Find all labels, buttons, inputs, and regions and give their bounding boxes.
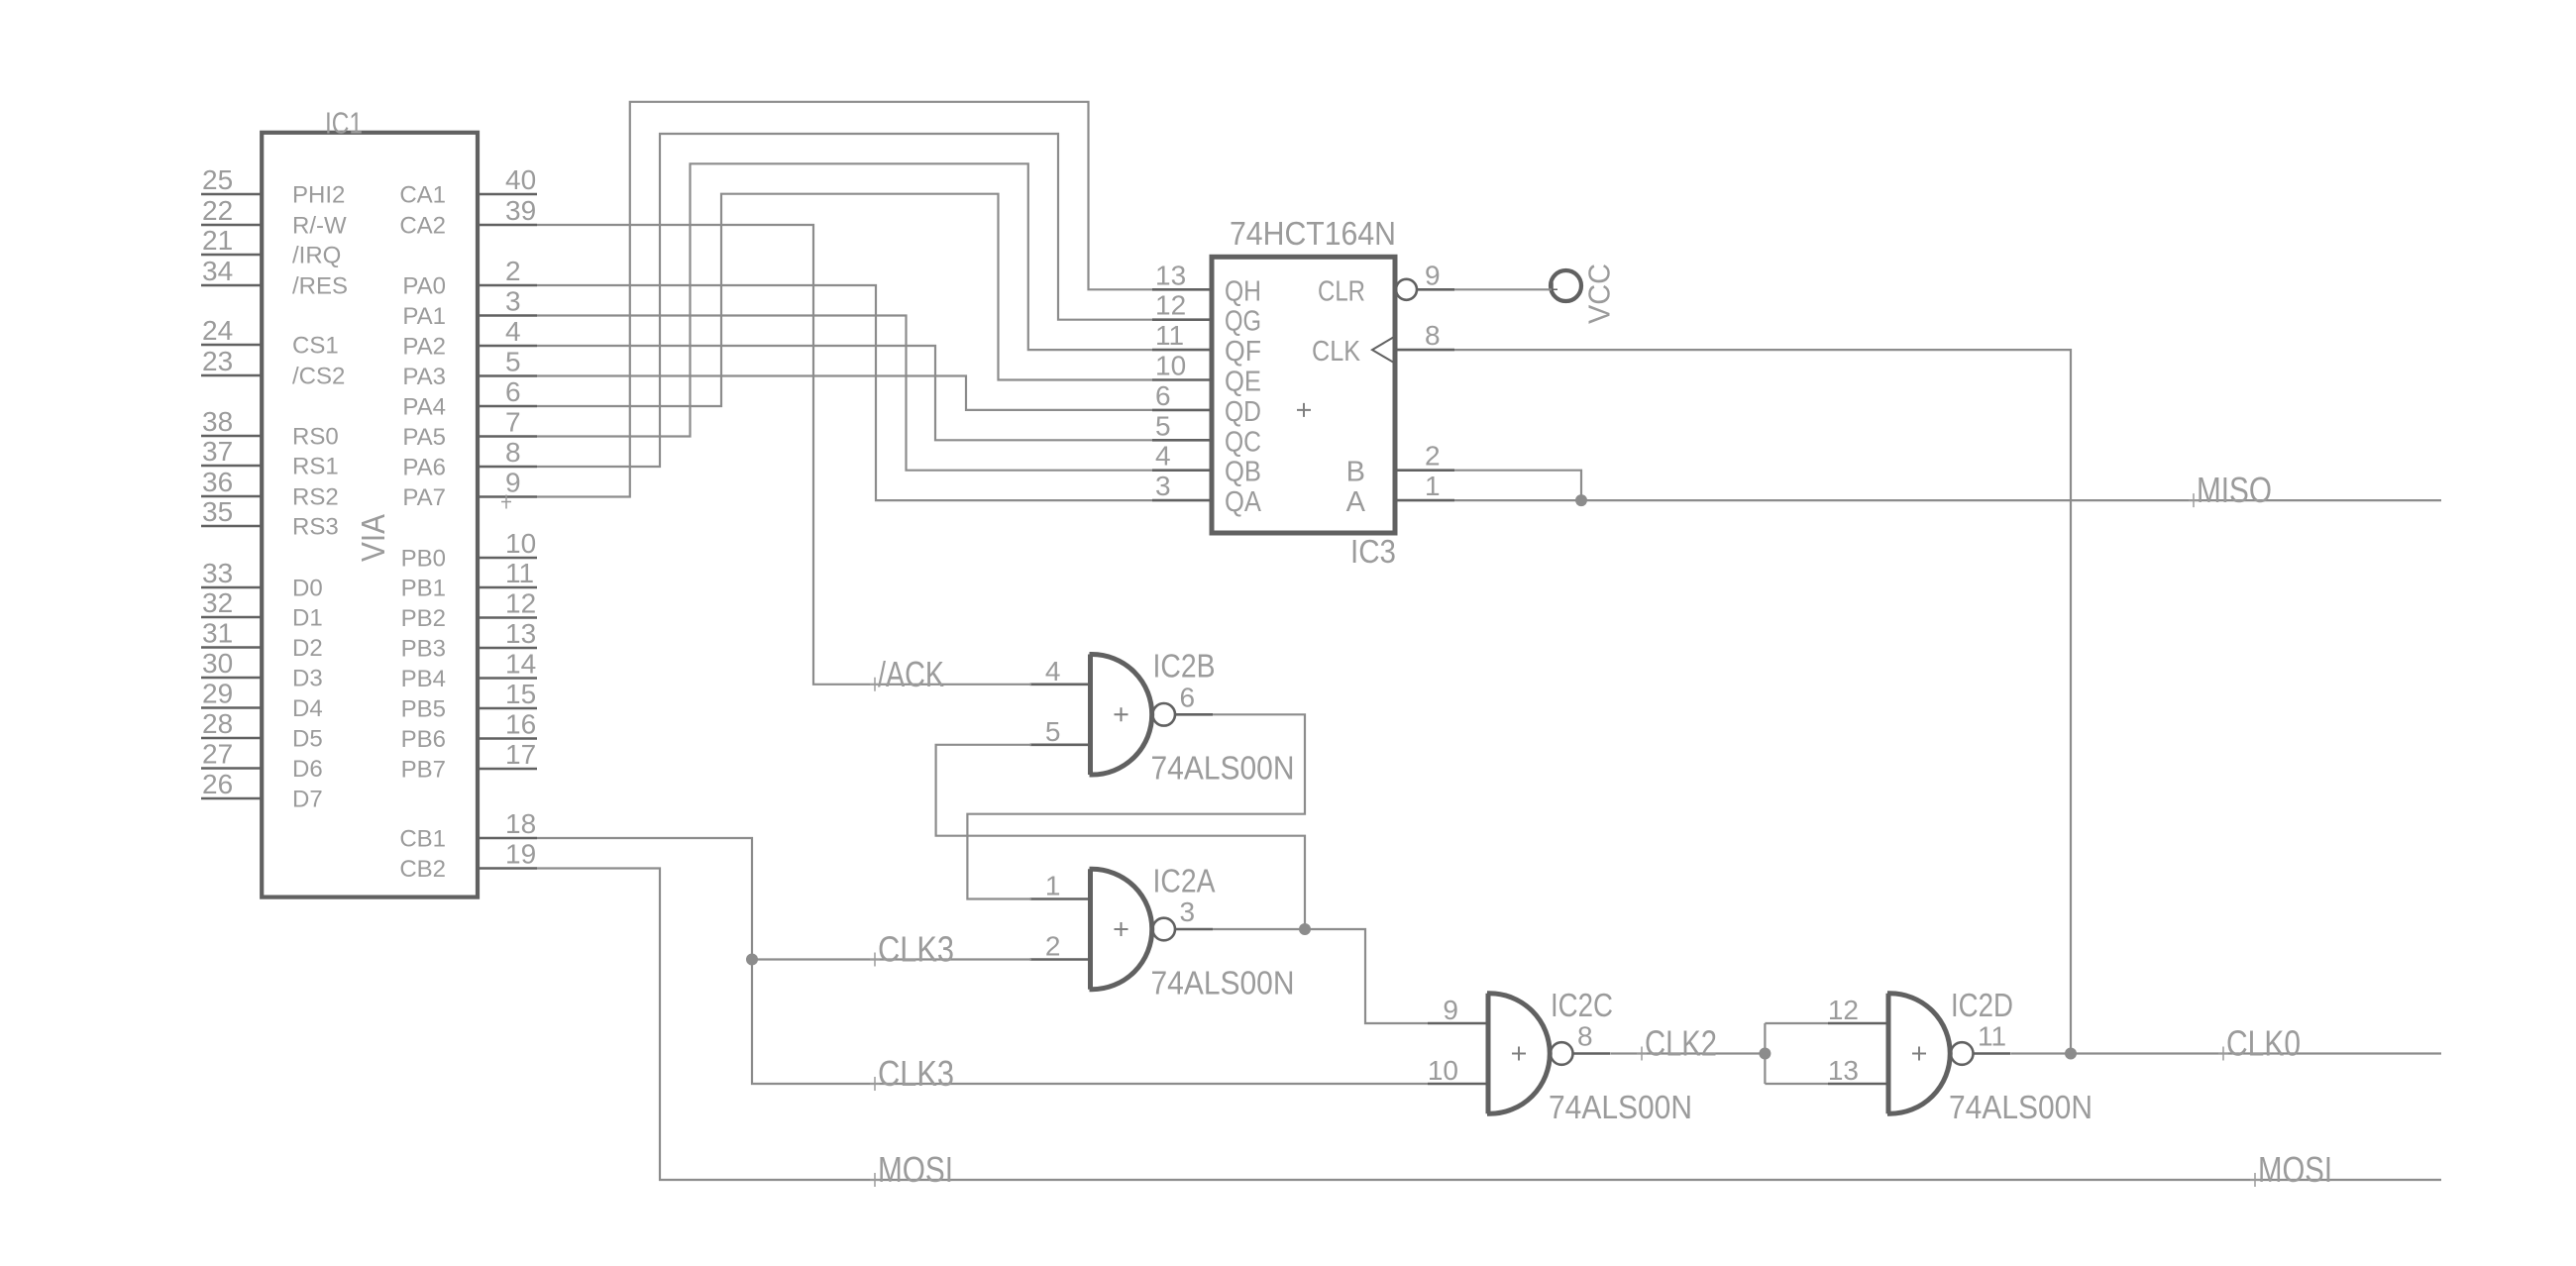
svg-text:QC: QC bbox=[1225, 426, 1261, 458]
IC1 pin 9 (PA7) bbox=[402, 468, 537, 512]
svg-text:CLK2: CLK2 bbox=[1645, 1023, 1717, 1064]
svg-text:22: 22 bbox=[202, 195, 233, 226]
IC2D input pin 13 stub bbox=[1828, 1055, 1888, 1086]
svg-text:QG: QG bbox=[1225, 306, 1261, 338]
junction on net S at IC2A output bbox=[1299, 923, 1311, 935]
wire net MOSI (IC1 CB2 pin 19 along bottom off right) bbox=[537, 869, 2441, 1181]
svg-text:/CS2: /CS2 bbox=[292, 364, 345, 390]
wire net CLK2 (IC2C output 8 to IC2D inputs 12 and 13) bbox=[1611, 1023, 1828, 1084]
IC1 pin 21 (/IRQ) bbox=[201, 225, 341, 269]
IC1 reference designator label bbox=[325, 106, 363, 141]
svg-text:MISO: MISO bbox=[2197, 470, 2272, 510]
IC1 VIA 6522 body bbox=[262, 133, 478, 897]
svg-text:IC2D: IC2D bbox=[1951, 987, 2013, 1023]
IC2A output pin 3 stub bbox=[1175, 897, 1213, 929]
svg-text:2: 2 bbox=[1425, 441, 1441, 472]
IC2D reference designator label bbox=[1951, 987, 2013, 1023]
IC2A value label 74ALS00N bbox=[1151, 964, 1295, 1001]
svg-text:RS3: RS3 bbox=[292, 514, 339, 541]
IC2A input pin 2 stub bbox=[1030, 931, 1091, 962]
svg-text:5: 5 bbox=[1045, 716, 1061, 747]
wire net VCC (IC3 CLR pin 9 to VCC symbol) bbox=[1454, 288, 1552, 290]
svg-text:6: 6 bbox=[1155, 380, 1171, 411]
IC1 pin 5 (PA3) bbox=[402, 347, 537, 391]
IC2D input pin 12 stub bbox=[1828, 995, 1888, 1025]
svg-text:PA5: PA5 bbox=[402, 424, 446, 451]
junction on CLK2 branch bbox=[1759, 1048, 1771, 1060]
svg-text:PB7: PB7 bbox=[401, 757, 446, 784]
svg-text:D2: D2 bbox=[292, 635, 323, 662]
svg-text:1: 1 bbox=[1045, 871, 1061, 901]
svg-text:15: 15 bbox=[505, 679, 536, 709]
svg-text:D0: D0 bbox=[292, 576, 323, 602]
svg-text:4: 4 bbox=[1045, 656, 1061, 686]
svg-text:32: 32 bbox=[202, 587, 233, 618]
svg-text:18: 18 bbox=[505, 808, 536, 839]
IC1 pin 22 (R/-W) bbox=[201, 195, 347, 240]
svg-text:QD: QD bbox=[1225, 396, 1261, 428]
IC1 value label VIA (vertical) bbox=[355, 514, 391, 562]
svg-text:8: 8 bbox=[1425, 320, 1441, 351]
svg-text:30: 30 bbox=[202, 648, 233, 679]
svg-text:9: 9 bbox=[1443, 995, 1458, 1025]
svg-text:PB5: PB5 bbox=[401, 696, 446, 723]
svg-text:25: 25 bbox=[202, 164, 233, 195]
svg-text:10: 10 bbox=[1428, 1055, 1458, 1086]
svg-text:10: 10 bbox=[505, 528, 536, 559]
IC1 pin 39 (CA2) bbox=[399, 195, 537, 240]
IC2B input pin 5 stub bbox=[1030, 716, 1091, 747]
IC2C reference designator label bbox=[1551, 987, 1613, 1023]
svg-text:9: 9 bbox=[1425, 260, 1441, 290]
IC1 pin 23 (/CS2) bbox=[201, 346, 345, 390]
svg-text:74HCT164N: 74HCT164N bbox=[1230, 215, 1396, 252]
junction on CLK0 at IC2D output bbox=[2065, 1048, 2077, 1060]
svg-text:21: 21 bbox=[202, 225, 233, 256]
wire net PA6 (IC1 pin 8 over the top to IC3 QG pin 12) bbox=[537, 134, 1152, 467]
svg-text:34: 34 bbox=[202, 256, 233, 286]
IC3 pin 6 (QD) bbox=[1152, 380, 1261, 428]
svg-text:MOSI: MOSI bbox=[2258, 1149, 2332, 1190]
IC1 pin 25 (PHI2) bbox=[201, 164, 345, 209]
svg-text:CLK3: CLK3 bbox=[878, 1053, 954, 1094]
svg-text:38: 38 bbox=[202, 406, 233, 437]
svg-text:QF: QF bbox=[1225, 336, 1261, 368]
svg-text:37: 37 bbox=[202, 436, 233, 467]
svg-text:74ALS00N: 74ALS00N bbox=[1151, 964, 1295, 1001]
IC1 pin 27 (D6) bbox=[201, 739, 323, 784]
svg-text:RS2: RS2 bbox=[292, 484, 339, 511]
svg-text:13: 13 bbox=[1828, 1055, 1859, 1086]
wire net PA5 (IC1 pin 7 over the top to IC3 QF pin 11) bbox=[537, 163, 1152, 436]
svg-text:36: 36 bbox=[202, 467, 233, 497]
svg-text:40: 40 bbox=[505, 164, 536, 195]
IC1 pin 15 (PB5) bbox=[401, 679, 537, 723]
IC3 value label 74HCT164N bbox=[1230, 215, 1396, 252]
svg-text:2: 2 bbox=[505, 256, 521, 286]
svg-text:6: 6 bbox=[505, 376, 521, 407]
NAND gate IC2D (74ALS00N) bbox=[1887, 994, 1973, 1114]
IC2B reference designator label bbox=[1153, 648, 1216, 685]
svg-text:3: 3 bbox=[1180, 897, 1196, 927]
svg-text:11: 11 bbox=[1978, 1021, 2006, 1052]
IC1 pin 4 (PA2) bbox=[402, 316, 537, 361]
svg-text:PB3: PB3 bbox=[401, 636, 446, 663]
IC1 pin 35 (RS3) bbox=[201, 496, 339, 541]
svg-text:QH: QH bbox=[1225, 275, 1261, 307]
IC3 pin 12 (QG) bbox=[1152, 290, 1261, 338]
svg-text:27: 27 bbox=[202, 739, 233, 770]
IC2D output pin 11 stub bbox=[1974, 1021, 2011, 1054]
svg-text:A: A bbox=[1346, 486, 1366, 518]
svg-text:39: 39 bbox=[505, 195, 536, 226]
IC1 pin 33 (D0) bbox=[201, 558, 323, 602]
IC1 pin 36 (RS2) bbox=[201, 467, 339, 511]
svg-text:13: 13 bbox=[505, 618, 536, 649]
svg-text:PA6: PA6 bbox=[402, 455, 446, 481]
svg-text:74ALS00N: 74ALS00N bbox=[1151, 750, 1295, 787]
svg-text:PA1: PA1 bbox=[402, 303, 446, 330]
IC1 pin 16 (PB6) bbox=[401, 709, 537, 754]
IC1 pin 13 (PB3) bbox=[401, 618, 537, 663]
svg-text:B: B bbox=[1346, 457, 1365, 488]
wire net PA4 (IC1 pin 6 over the top to IC3 QE pin 10) bbox=[537, 194, 1152, 406]
svg-text:24: 24 bbox=[202, 315, 233, 346]
svg-text:PA3: PA3 bbox=[402, 364, 446, 390]
svg-text:35: 35 bbox=[202, 496, 233, 527]
svg-text:CLK: CLK bbox=[1312, 336, 1361, 368]
wire net PA7 (IC1 pin 9 over the top to IC3 QH pin 13) bbox=[537, 102, 1152, 497]
IC3 pin 9 (CLR) with inversion bubble bbox=[1318, 260, 1454, 307]
svg-text:14: 14 bbox=[505, 649, 536, 680]
IC3 pin 2 (B) bbox=[1346, 441, 1454, 488]
svg-text:1: 1 bbox=[1425, 471, 1441, 501]
net label CLK2 bbox=[1637, 1023, 1717, 1064]
svg-text:MOSI: MOSI bbox=[878, 1149, 953, 1190]
svg-text:16: 16 bbox=[505, 709, 536, 740]
wire net /ACK (IC1 CA2 pin 39 to IC2B pin 4) bbox=[537, 225, 1031, 685]
svg-text:CB2: CB2 bbox=[399, 856, 446, 883]
IC2A input pin 1 stub bbox=[1030, 871, 1091, 901]
svg-text:PB4: PB4 bbox=[401, 666, 446, 692]
IC1 pin 29 (D4) bbox=[201, 679, 323, 723]
IC2D value label 74ALS00N bbox=[1949, 1089, 2093, 1125]
svg-text:8: 8 bbox=[505, 437, 521, 468]
IC1 pin 12 (PB2) bbox=[401, 588, 537, 633]
svg-text:CLR: CLR bbox=[1318, 275, 1365, 307]
svg-text:PA7: PA7 bbox=[402, 484, 446, 511]
svg-text:PB1: PB1 bbox=[401, 576, 446, 602]
svg-text:19: 19 bbox=[505, 839, 536, 870]
svg-text:5: 5 bbox=[1155, 410, 1171, 441]
IC1 pin 30 (D3) bbox=[201, 648, 323, 692]
net label MOSI (right) bbox=[2250, 1149, 2332, 1190]
IC1 pin 26 (D7) bbox=[201, 769, 323, 813]
NAND gate IC2A (74ALS00N) bbox=[1090, 869, 1175, 990]
svg-text:2: 2 bbox=[1045, 931, 1061, 962]
svg-text:QE: QE bbox=[1225, 367, 1261, 398]
svg-text:D4: D4 bbox=[292, 695, 323, 722]
svg-text:12: 12 bbox=[1155, 290, 1186, 321]
IC2B input pin 4 stub bbox=[1030, 656, 1091, 686]
IC1 pin 37 (RS1) bbox=[201, 436, 339, 480]
IC3 pin 11 (QF) bbox=[1152, 320, 1261, 368]
IC3 internal plus mark bbox=[1297, 403, 1311, 417]
IC2C output pin 8 stub bbox=[1573, 1021, 1611, 1054]
svg-text:IC2A: IC2A bbox=[1153, 862, 1216, 898]
svg-text:IC3: IC3 bbox=[1350, 533, 1396, 570]
svg-text:IC2B: IC2B bbox=[1153, 648, 1216, 685]
svg-text:11: 11 bbox=[1155, 320, 1184, 351]
svg-text:26: 26 bbox=[202, 769, 233, 799]
svg-text:9: 9 bbox=[505, 468, 521, 498]
IC1 pin 40 (CA1) bbox=[399, 164, 537, 209]
svg-text:CA1: CA1 bbox=[399, 182, 446, 209]
svg-text:CLK0: CLK0 bbox=[2226, 1023, 2301, 1064]
net label /ACK bbox=[870, 654, 944, 694]
wire net S (IC2A output 3 to IC2B input 5 and IC2C input 9) bbox=[936, 745, 1428, 1023]
svg-text:4: 4 bbox=[505, 316, 521, 347]
svg-text:VIA: VIA bbox=[355, 514, 391, 562]
svg-text:RS1: RS1 bbox=[292, 454, 339, 480]
IC3 74HCT164N body bbox=[1212, 257, 1395, 533]
IC1 pin 32 (D1) bbox=[201, 587, 323, 632]
wire net PA0 (IC1 pin 2 to IC3 QA pin 3) bbox=[537, 285, 1152, 500]
IC2A reference designator label bbox=[1153, 862, 1216, 898]
svg-text:4: 4 bbox=[1155, 441, 1171, 472]
net origin cross on PA7 wire bbox=[501, 495, 511, 509]
IC1 pin 28 (D5) bbox=[201, 708, 323, 753]
svg-text:CS1: CS1 bbox=[292, 333, 339, 360]
svg-text:8: 8 bbox=[1577, 1021, 1593, 1052]
IC1 pin 2 (PA0) bbox=[402, 256, 537, 300]
IC1 pin 31 (D2) bbox=[201, 618, 323, 663]
IC1 pin 17 (PB7) bbox=[401, 739, 537, 784]
IC1 pin 7 (PA5) bbox=[402, 407, 537, 452]
svg-text:CLK3: CLK3 bbox=[878, 929, 954, 970]
junction on MISO at B jog bbox=[1575, 494, 1587, 506]
net label CLK3 (upper) bbox=[870, 929, 954, 970]
svg-text:17: 17 bbox=[505, 739, 536, 770]
svg-text:D7: D7 bbox=[292, 787, 323, 813]
svg-text:D6: D6 bbox=[292, 756, 323, 783]
IC1 pin 6 (PA4) bbox=[402, 376, 537, 421]
svg-text:29: 29 bbox=[202, 679, 233, 709]
svg-text:/IRQ: /IRQ bbox=[292, 243, 341, 269]
IC3 reference designator label bbox=[1350, 533, 1396, 570]
IC3 pin 4 (QB) bbox=[1152, 441, 1261, 488]
svg-text:33: 33 bbox=[202, 558, 233, 588]
svg-text:13: 13 bbox=[1155, 260, 1186, 290]
wire net PA3 (IC1 pin 5 to IC3 QD pin 6) bbox=[537, 376, 1152, 410]
svg-text:CA2: CA2 bbox=[399, 213, 446, 240]
wire net PA1 (IC1 pin 3 to IC3 QB pin 4) bbox=[537, 316, 1152, 471]
IC3 pin 5 (QC) bbox=[1152, 410, 1261, 458]
svg-text:28: 28 bbox=[202, 708, 233, 739]
wire IC3 B pin 2 jog down to MISO bbox=[1454, 471, 1581, 500]
svg-text:11: 11 bbox=[505, 558, 534, 588]
svg-text:D3: D3 bbox=[292, 666, 323, 692]
IC1 pin 10 (PB0) bbox=[401, 528, 537, 573]
IC3 pin 8 (CLK) with edge-trigger chevron bbox=[1312, 320, 1454, 368]
svg-text:PB0: PB0 bbox=[401, 546, 446, 573]
IC3 pin 10 (QE) bbox=[1152, 351, 1261, 398]
IC1 pin 24 (CS1) bbox=[201, 315, 339, 360]
svg-text:PHI2: PHI2 bbox=[292, 182, 345, 209]
svg-text:PA4: PA4 bbox=[402, 394, 446, 421]
svg-text:QA: QA bbox=[1225, 486, 1262, 518]
VCC power symbol bbox=[1548, 264, 1617, 324]
wire net CLK3 (IC1 CB1 pin 18 to IC2A pin 2 and IC2C pin 10) bbox=[537, 838, 1428, 1084]
IC3 pin 1 (A) bbox=[1346, 471, 1454, 518]
svg-text:6: 6 bbox=[1180, 682, 1196, 712]
junction on CLK3 branch bbox=[746, 954, 758, 966]
svg-text:PA2: PA2 bbox=[402, 334, 446, 361]
svg-text:IC1: IC1 bbox=[325, 106, 363, 141]
IC1 pin 19 (CB2) bbox=[399, 839, 537, 884]
net label MISO bbox=[2189, 470, 2272, 510]
svg-text:CB1: CB1 bbox=[399, 826, 446, 853]
svg-text:QB: QB bbox=[1225, 457, 1261, 488]
wire net R (IC2B output 6 to IC2A input 1) bbox=[967, 714, 1305, 898]
svg-text:74ALS00N: 74ALS00N bbox=[1549, 1089, 1692, 1125]
IC1 pin 3 (PA1) bbox=[402, 286, 537, 331]
svg-text:10: 10 bbox=[1155, 351, 1186, 381]
wire net MISO (IC3 A pin 1 off right) bbox=[1454, 499, 2441, 501]
svg-text:5: 5 bbox=[505, 347, 521, 377]
net label CLK0 bbox=[2218, 1023, 2301, 1064]
net label CLK3 (lower) bbox=[870, 1053, 954, 1094]
svg-text:PB6: PB6 bbox=[401, 726, 446, 753]
IC1 pin 38 (RS0) bbox=[201, 406, 339, 451]
IC2C value label 74ALS00N bbox=[1549, 1089, 1692, 1125]
svg-text:PB2: PB2 bbox=[401, 605, 446, 632]
svg-text:RS0: RS0 bbox=[292, 424, 339, 451]
IC2C input pin 10 stub bbox=[1428, 1055, 1488, 1086]
svg-text:PA0: PA0 bbox=[402, 273, 446, 300]
svg-text:74ALS00N: 74ALS00N bbox=[1949, 1089, 2093, 1125]
svg-text:12: 12 bbox=[505, 588, 536, 619]
svg-text:12: 12 bbox=[1828, 995, 1859, 1025]
IC2B value label 74ALS00N bbox=[1151, 750, 1295, 787]
net label MOSI (left) bbox=[870, 1149, 953, 1190]
svg-text:7: 7 bbox=[505, 407, 521, 438]
NAND gate IC2C (74ALS00N) bbox=[1487, 994, 1572, 1114]
IC1 pin 34 (/RES) bbox=[201, 256, 348, 300]
svg-text:R/-W: R/-W bbox=[292, 213, 347, 240]
IC1 pin 18 (CB1) bbox=[399, 808, 537, 853]
svg-text:3: 3 bbox=[1155, 471, 1171, 501]
IC2C input pin 9 stub bbox=[1428, 995, 1488, 1025]
IC1 pin 14 (PB4) bbox=[401, 649, 537, 693]
svg-text:31: 31 bbox=[202, 618, 233, 649]
wire net PA2 (IC1 pin 4 to IC3 QC pin 5) bbox=[537, 346, 1152, 440]
wire net CLK0 (IC3 CLK pin 8 down to IC2D output and off right) bbox=[1454, 350, 2441, 1053]
svg-text:D5: D5 bbox=[292, 726, 323, 753]
svg-text:D1: D1 bbox=[292, 605, 323, 632]
svg-text:23: 23 bbox=[202, 346, 233, 376]
svg-text:3: 3 bbox=[505, 286, 521, 317]
NAND gate IC2B (74ALS00N) bbox=[1090, 655, 1175, 776]
svg-text:/RES: /RES bbox=[292, 273, 348, 300]
IC1 pin 8 (PA6) bbox=[402, 437, 537, 481]
svg-text:IC2C: IC2C bbox=[1551, 987, 1613, 1023]
svg-text:/ACK: /ACK bbox=[878, 654, 944, 694]
IC2B output pin 6 stub bbox=[1175, 682, 1213, 714]
svg-text:VCC: VCC bbox=[1582, 264, 1617, 324]
IC1 pin 11 (PB1) bbox=[401, 558, 537, 602]
IC3 pin 3 (QA) bbox=[1152, 471, 1262, 518]
IC3 pin 13 (QH) bbox=[1152, 260, 1261, 307]
